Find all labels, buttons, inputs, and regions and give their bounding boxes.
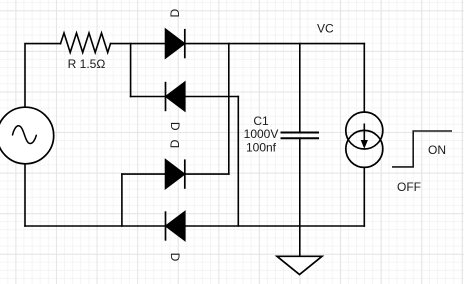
wire row2 right segment D2 anode to corner x=238 <box>185 96 238 98</box>
wire vertical x=238 row2 to bottom rail <box>237 97 239 227</box>
wire vertical x=229 top rail to row3 <box>228 44 230 175</box>
wire row3 left segment to D3 anode <box>122 173 165 175</box>
diode D3 triangle <box>165 159 185 188</box>
svg-text:100nf: 100nf <box>246 140 277 154</box>
wire vertical x=122 row3 to bottom rail <box>121 174 123 226</box>
svg-text:D: D <box>168 139 182 148</box>
current source U1 upper circle <box>346 112 383 149</box>
diode D1 cathode bar <box>184 29 186 58</box>
capacitor C1 plates <box>281 133 320 139</box>
wire top rail from D1 cathode to current source corner <box>185 43 364 45</box>
wire bottom rail <box>25 225 364 227</box>
wire capacitor bottom to ground <box>299 139 301 257</box>
diode D4 cathode bar <box>165 211 167 240</box>
svg-text:D: D <box>168 253 182 262</box>
AC source V1 circle <box>0 107 54 164</box>
svg-text:1000V: 1000V <box>244 127 279 141</box>
wire capacitor branch top <box>299 44 301 132</box>
svg-text:D: D <box>168 9 182 18</box>
wire row2 left segment to D2 cathode <box>131 96 166 98</box>
wire row3 right segment D3 cathode to x=229 <box>185 173 229 175</box>
wire top-left from resistor to AC source top <box>25 44 61 107</box>
svg-text:C1: C1 <box>253 114 269 128</box>
wire current source top <box>363 44 365 112</box>
wire junction drop x=130.6 row1 to row2 <box>130 44 132 97</box>
resistor R zigzag <box>61 33 111 53</box>
svg-text:R 1.5Ω: R 1.5Ω <box>68 57 106 71</box>
wire AC source bottom to rail <box>24 164 26 226</box>
wire resistor to diode D1 anode <box>111 43 166 45</box>
diode D2 triangle <box>166 82 186 111</box>
svg-text:VC: VC <box>317 22 334 36</box>
diode D4 triangle <box>166 211 186 240</box>
AC source sine wave <box>13 126 37 144</box>
ground symbol <box>277 256 322 274</box>
current source arrow <box>363 124 365 141</box>
svg-text:ON: ON <box>428 143 446 157</box>
diode D2 cathode bar <box>165 82 167 111</box>
wire current source bottom <box>363 167 365 226</box>
control step waveform ON/OFF <box>392 131 452 167</box>
current source U1 lower circle <box>346 130 383 167</box>
diode D3 cathode bar <box>184 159 186 188</box>
svg-text:D: D <box>168 122 182 131</box>
diode D1 triangle <box>165 29 185 58</box>
svg-text:OFF: OFF <box>397 180 421 194</box>
